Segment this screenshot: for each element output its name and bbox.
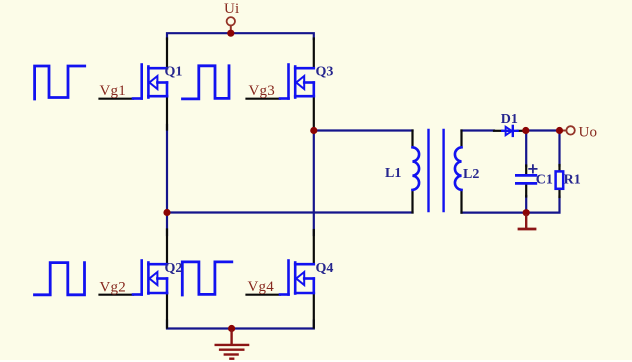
inductor L2 transformer secondary winding [455, 147, 462, 190]
gate drive waveform square wave 1 (Vg1) [35, 66, 85, 99]
wire C1 top branch [525, 131, 527, 167]
pin R1 top [558, 165, 560, 171]
gate drive waveform square wave 4 (Vg4) [182, 262, 232, 295]
svg-text:L1: L1 [385, 166, 401, 181]
inductor L1 transformer primary winding [413, 147, 420, 190]
wire output bottom rail L2 to R1 [462, 197, 560, 213]
wire right midpoint to L1 top [314, 129, 413, 131]
wire Q1 source to left midpoint node [166, 125, 168, 213]
transformer core lines [429, 130, 444, 211]
junction dot C1 bottom rail [523, 209, 530, 216]
svg-text:Vg3: Vg3 [249, 83, 275, 99]
pin Q4 drain [313, 230, 315, 264]
pin Q1 gate wire from Vg1 [100, 98, 134, 100]
transistor Q3 NMOS symbol [280, 65, 314, 99]
capacitor C1 polarized [516, 175, 535, 183]
transistor Q2 NMOS symbol [133, 261, 167, 295]
diode D1 [502, 126, 517, 136]
pin D1 cathode [518, 130, 526, 132]
pin Q2 drain [166, 230, 168, 265]
wire bottom rail Q2 source to Q4 source [167, 321, 314, 329]
pin Q1 drain [166, 39, 168, 69]
pin Q4 gate wire from Vg4 [247, 294, 281, 296]
svg-text:Vg4: Vg4 [248, 279, 275, 295]
power port Uo terminal circle [563, 130, 566, 132]
pin L2 top [460, 131, 462, 148]
pin L2 bottom [460, 190, 462, 213]
junction dot Ui on top rail [227, 30, 234, 37]
pin Q1 source [166, 97, 168, 130]
svg-text:Ui: Ui [224, 1, 239, 17]
wire middle rail left midpoint to L1 bottom [167, 211, 413, 213]
pin Q2 source [166, 293, 168, 328]
gate drive waveform square wave 3 (Vg2) [35, 263, 85, 295]
wire D1 cathode node to Uo node [526, 129, 560, 131]
junction dot right midpoint [310, 127, 317, 134]
svg-text:Q1: Q1 [165, 64, 183, 79]
svg-text:Q3: Q3 [316, 64, 334, 79]
pin Q3 gate wire from Vg3 [247, 98, 281, 100]
wire top rail Ui [167, 33, 314, 39]
pin D1 anode [494, 130, 502, 132]
junction dot D1 cathode / C1 [522, 127, 529, 134]
wire right midpoint to Q4 drain [313, 131, 315, 236]
pin R1 bottom [558, 189, 560, 197]
svg-text:Q4: Q4 [316, 261, 334, 276]
svg-text:D1: D1 [501, 112, 518, 127]
pin Q2 gate wire from Vg2 [100, 294, 134, 296]
svg-text:R1: R1 [564, 172, 581, 187]
junction dot left midpoint [163, 209, 170, 216]
svg-text:L2: L2 [463, 167, 479, 182]
wire R1 top branch [558, 131, 560, 166]
earth ground bottom center [215, 330, 250, 359]
capacitor C1 plus sign [529, 165, 536, 172]
power port Ui terminal circle [230, 26, 232, 32]
svg-text:Vg2: Vg2 [100, 279, 126, 295]
pin Q3 source [313, 96, 315, 130]
pin C1 bottom [525, 185, 527, 197]
transistor Q1 NMOS symbol [133, 65, 167, 99]
pin C1 top [525, 166, 527, 175]
pin Q4 source [313, 293, 315, 328]
svg-text:C1: C1 [536, 172, 553, 187]
resistor R1 [556, 171, 564, 188]
svg-text:Q2: Q2 [165, 261, 183, 276]
transistor Q4 NMOS symbol [280, 261, 314, 295]
svg-text:Vg1: Vg1 [100, 83, 126, 99]
pin Q3 drain [313, 39, 315, 69]
wire C1 bottom branch [525, 196, 527, 213]
wire left midpoint to Q2 drain [166, 213, 168, 236]
power ground bar under C1 [518, 214, 537, 229]
junction dot bottom rail ground tap [228, 325, 235, 332]
junction dot Uo / R1 top [556, 127, 563, 134]
pin L1 bottom [411, 190, 413, 213]
pin L1 top [411, 131, 413, 148]
svg-text:Uo: Uo [579, 124, 598, 140]
gate drive waveform square wave 2 (Vg3) [183, 66, 230, 99]
wire L2 top to D1 anode [462, 129, 495, 131]
